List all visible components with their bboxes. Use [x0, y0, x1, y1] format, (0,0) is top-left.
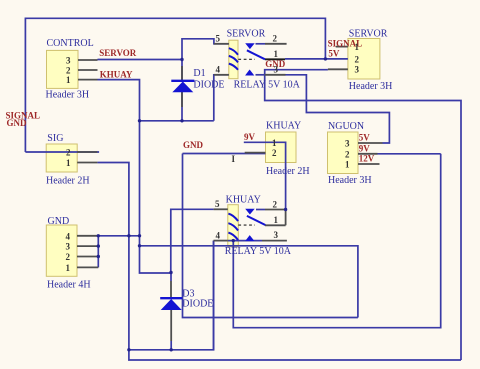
wire D1 anode down to KHUAY coil net: [181, 60, 183, 81]
pin stub D3 anode: [170, 310, 172, 341]
connector J3 GND Header 4H body: [46, 225, 77, 276]
svg-text:2: 2: [355, 54, 360, 64]
wire SERVOR net up to relay pin5: [182, 39, 229, 60]
svg-text:SERVOR: SERVOR: [227, 29, 266, 40]
relay K1 coil winding: [229, 48, 238, 55]
svg-text:5: 5: [215, 199, 220, 209]
svg-text:12V: 12V: [359, 154, 375, 164]
wire SIGNAL net top border: [25, 18, 325, 152]
connector J5 KHUAY Header 2H body: [266, 132, 297, 163]
svg-text:2: 2: [66, 148, 71, 158]
pin stub D3 cathode: [170, 281, 172, 298]
pin link K2 pin2-pin1: [285, 210, 287, 226]
svg-text:1: 1: [272, 138, 277, 148]
diode D3 body: [161, 299, 182, 310]
connector J1 CONTROL Header 3H body: [47, 50, 79, 88]
pin stubs CONTROL J1: [78, 59, 98, 61]
pin stub K2 pin1: [265, 224, 286, 226]
svg-text:KHUAY: KHUAY: [266, 120, 301, 131]
svg-text:1: 1: [355, 42, 360, 52]
svg-text:D1: D1: [193, 68, 205, 79]
relay K1 contact arrow pin3: [245, 70, 254, 76]
svg-text:I: I: [232, 154, 236, 164]
svg-text:CONTROL: CONTROL: [47, 38, 94, 49]
wire SIG pin1 net V1: [97, 163, 461, 361]
svg-text:3: 3: [66, 242, 71, 252]
svg-text:2: 2: [273, 34, 278, 44]
svg-text:SIG: SIG: [47, 133, 63, 144]
svg-text:9V: 9V: [359, 144, 371, 154]
svg-text:Header 2H: Header 2H: [46, 176, 90, 187]
wire relay K2 pin5 net: [171, 209, 214, 272]
svg-text:3: 3: [274, 65, 279, 75]
wire long KHUAY drive net: [140, 246, 358, 318]
svg-text:1: 1: [274, 49, 279, 59]
wire 9V net NGUON pin2: [378, 153, 441, 155]
pin stubs NGUON J6: [358, 142, 383, 144]
relay K2 contact arrow pin3: [245, 235, 254, 241]
pin stubs GND J3: [77, 235, 98, 237]
svg-text:RELAY 5V 10A: RELAY 5V 10A: [234, 79, 301, 90]
svg-text:5V: 5V: [359, 132, 371, 142]
wire D3 cathode up: [170, 273, 172, 282]
svg-text:2: 2: [345, 149, 350, 159]
svg-text:5: 5: [216, 34, 221, 44]
svg-text:DIODE: DIODE: [182, 299, 213, 310]
pin stubs SERVOR header J4: [336, 46, 348, 48]
svg-text:2: 2: [273, 199, 278, 209]
wire relay K2 pin4 over coil: [228, 240, 262, 242]
relay K1 SERVOR coil body: [229, 40, 238, 78]
wire GND label net vertical: [183, 154, 358, 318]
svg-text:GND: GND: [7, 118, 28, 128]
svg-text:4: 4: [216, 65, 221, 75]
connector J2 SIG Header 2H body: [46, 144, 77, 172]
relay K1 switch arm: [247, 50, 265, 59]
wire SERVOR net from CONTROL pin3: [98, 59, 183, 61]
pin stub D1 cathode: [181, 66, 183, 81]
svg-text:GND: GND: [48, 216, 70, 227]
svg-text:SERVOR: SERVOR: [99, 48, 137, 58]
relay K2 dashed link: [238, 224, 255, 226]
svg-text:KHUAY: KHUAY: [226, 194, 261, 205]
svg-text:DIODE: DIODE: [193, 79, 224, 90]
wire bottom left branch: [129, 241, 214, 350]
wire 9V net from coil junction down: [233, 154, 440, 328]
svg-text:4: 4: [66, 231, 71, 241]
svg-text:3: 3: [66, 56, 71, 66]
wire W2 up to relay K1 pin4: [214, 75, 229, 121]
wire D3 anode bottom: [170, 341, 172, 350]
svg-text:1: 1: [274, 215, 279, 225]
wire contact stub K1 pin3: [256, 74, 265, 76]
relay K1 dashed link: [238, 58, 255, 60]
relay K2 coil winding: [228, 214, 238, 221]
wire contact stub K1 pin2: [256, 43, 266, 45]
relay K2 KHUAY coil body: [228, 205, 239, 247]
wire W2 KHUAY coil net horizontal: [140, 120, 214, 122]
connector J6 NGUON Header 3H body: [328, 132, 359, 174]
connector J4 SERVOR Header 3H body: [348, 39, 380, 80]
pin stub K1 pin1 black: [265, 58, 285, 60]
svg-text:Header 3H: Header 3H: [349, 81, 393, 92]
svg-text:1: 1: [66, 158, 71, 168]
wire contact stub K2 pin2: [256, 209, 265, 211]
pin stubs relay K2: [214, 208, 228, 210]
svg-text:1: 1: [66, 263, 71, 273]
svg-text:5V: 5V: [328, 49, 340, 59]
wire GND label net horizontal to KHUAY header pin2: [183, 153, 266, 155]
wire relay K1 pin1 to header SERVOR pin2: [285, 58, 348, 60]
svg-text:4: 4: [216, 230, 221, 240]
svg-text:1: 1: [345, 160, 350, 170]
pin stubs KHUAY header J5: [245, 152, 266, 154]
wire relay K1 pin3 to NGUON pin3 5V net: [286, 75, 390, 143]
svg-text:NGUON: NGUON: [328, 121, 364, 132]
wire relay K2 pin4 down: [213, 241, 215, 350]
wire GND net from header SERVOR pin3: [265, 70, 461, 360]
svg-text:1: 1: [66, 75, 71, 85]
relay K1 contact arrow pin2: [245, 43, 255, 49]
diode D1 cathode bar: [171, 80, 194, 82]
diode D3 cathode bar: [160, 297, 182, 299]
wire KHUAY header pin1 down to relay K2: [244, 142, 286, 209]
svg-text:2: 2: [66, 252, 71, 262]
pin stubs SIG J2: [77, 151, 97, 153]
svg-text:KHUAY: KHUAY: [100, 70, 133, 80]
svg-text:GND: GND: [183, 140, 204, 150]
svg-text:Header 3H: Header 3H: [46, 89, 90, 100]
wire CONTROL pin1 KHUAY net: [98, 80, 172, 273]
svg-text:Header 4H: Header 4H: [47, 280, 91, 291]
svg-text:9V: 9V: [244, 132, 256, 142]
wire W1 GND bus to V1 V2: [98, 235, 139, 237]
svg-text:3: 3: [355, 65, 360, 75]
relay K2 switch arm: [247, 216, 265, 225]
svg-text:Header 3H: Header 3H: [328, 175, 372, 186]
svg-text:RELAY 5V 10A: RELAY 5V 10A: [225, 246, 292, 257]
svg-text:2: 2: [66, 66, 71, 76]
svg-text:2: 2: [272, 148, 277, 158]
pin stub D1 anode: [181, 92, 183, 107]
junction dots: [180, 58, 183, 61]
svg-text:3: 3: [345, 139, 350, 149]
wire SIG pin2 to left border: [25, 151, 99, 153]
pin stubs relay K1: [214, 43, 229, 45]
diode D1 body: [172, 82, 193, 93]
svg-text:Header 2H: Header 2H: [266, 166, 310, 177]
wire GND bus of header J3: [97, 236, 99, 268]
svg-text:3: 3: [274, 230, 279, 240]
relay K2 contact arrow pin2: [245, 209, 255, 215]
